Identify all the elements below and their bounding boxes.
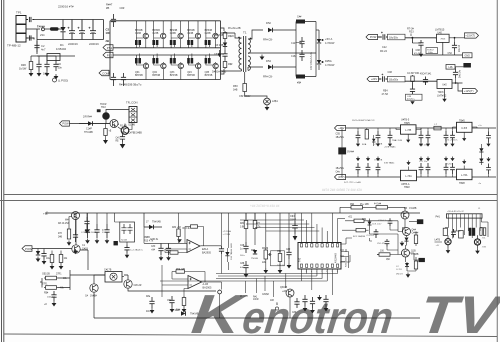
fuse F1 [37, 25, 45, 37]
wire bank bottom rail [346, 176, 497, 178]
capacitor bank boxed [114, 213, 135, 245]
capacitor C11 rail [106, 3, 125, 28]
node out box S [410, 253, 425, 262]
label +5V A [322, 37, 335, 45]
svg-text:GND #s: GND #s [150, 239, 159, 241]
transistor Q108 [402, 245, 419, 262]
svg-text:7: 7 [321, 271, 322, 273]
label LD bottom [435, 240, 443, 247]
transistor Q3B (bottom row cell) [170, 54, 184, 80]
resistor R52 top [296, 16, 316, 31]
svg-text:5#B TBAC: 5#B TBAC [384, 162, 395, 165]
capacitor C20 below box [124, 242, 143, 258]
diode D130 [362, 219, 382, 231]
capacitor CB7 top row [450, 128, 455, 147]
svg-text:TN#14B: TN#14B [190, 314, 199, 316]
svg-text:C#9 16#1 16#B: C#9 16#1 16#B [81, 232, 97, 234]
svg-text:BPP4B: BPP4B [205, 74, 213, 77]
label snubber bottom [212, 71, 227, 74]
svg-text:C1#: C1# [291, 42, 296, 45]
ground regA [419, 52, 423, 57]
diode D107 [144, 213, 162, 229]
svg-text:440u: 440u [240, 267, 246, 269]
diode D108 [176, 310, 199, 316]
svg-text:C#17B: C#17B [104, 269, 112, 272]
transistor Q4A (top row cell) [187, 21, 201, 48]
capacitor C81 [412, 40, 423, 55]
svg-text:C23B: C23B [152, 32, 158, 35]
wire inverter bottom rail [110, 21, 221, 80]
diode D52 [263, 21, 296, 42]
svg-text:D#1 0.1#: D#1 0.1# [373, 224, 383, 226]
capacitor C1b [26, 35, 34, 40]
led LED1 [245, 93, 279, 105]
svg-text:+7u/1#s: +7u/1#s [445, 164, 454, 166]
diode D30 snubber [215, 40, 227, 50]
label extra [44, 303, 47, 306]
svg-text:4B19##B: 4B19##B [335, 253, 338, 263]
svg-text:C+# 2Bu/1#s: C+# 2Bu/1#s [130, 250, 144, 252]
capacitor C60 series B [379, 71, 393, 82]
node out box D [409, 219, 423, 224]
svg-text:SV4##: SV4## [347, 152, 355, 154]
capacitor C9 [43, 60, 50, 76]
wire page divider upper [4, 194, 497, 196]
resistor R30 snubber [214, 31, 234, 40]
wire bottom rail input [26, 20, 104, 55]
resistor R134 [407, 257, 418, 271]
capacitor C104 [44, 291, 57, 307]
svg-text:C#5 1#u: C#5 1#u [419, 145, 428, 147]
capacitor C6 [89, 20, 100, 47]
ground Q107 [400, 241, 405, 246]
svg-text:R#1 10k$1B: R#1 10k$1B [353, 236, 366, 238]
label B node [275, 302, 278, 310]
regulator U62 LM7812 [437, 80, 463, 98]
svg-text:Q#1#B: Q#1#B [280, 287, 288, 289]
svg-text:+15V(T): +15V(T) [465, 34, 475, 38]
label TDK box [426, 48, 438, 54]
svg-text:##B: ##B [482, 247, 486, 249]
svg-text:C## 1B#u/1#+#s: C## 1B#u/1#+#s [310, 51, 313, 70]
resistor R114 [182, 296, 187, 313]
capacitor C52 [448, 37, 461, 55]
svg-text:C23B: C23B [187, 32, 193, 35]
connector P101 [436, 214, 483, 219]
node +24V input B [367, 76, 379, 81]
capacitor C71 [116, 134, 126, 142]
regulator U47B-A [401, 161, 417, 190]
svg-text:100R: 100R [253, 299, 259, 301]
label R13 [144, 237, 154, 243]
resistor R120 [240, 213, 248, 230]
capacitor CB11 bottom row [356, 157, 361, 178]
svg-text:BA2905: BA2905 [202, 252, 212, 255]
svg-text:COM: COM [102, 71, 109, 75]
svg-text:+B: +B [43, 212, 47, 216]
label inverter bottom [119, 83, 142, 87]
svg-text:100u/1#: 100u/1# [47, 297, 56, 299]
relay RL1 [37, 54, 75, 61]
svg-text:C23B: C23B [205, 32, 211, 35]
wire snubber connections [217, 28, 224, 74]
resistor R101 [58, 217, 78, 255]
svg-text:C2# 0.1+: C2# 0.1+ [378, 220, 388, 222]
node +12V output [456, 83, 478, 94]
svg-text:FR# CB-: FR# CB- [263, 39, 273, 42]
resistor R53 bottom [296, 67, 316, 85]
svg-text:TR_CON: TR_CON [126, 101, 138, 105]
ground regB b [410, 100, 414, 105]
svg-text:TV: TV [417, 286, 500, 342]
capacitor CB2 top row [376, 128, 381, 147]
svg-text:C#: C# [58, 62, 62, 66]
label 18u/50s boxed [388, 34, 406, 40]
svg-text:C'1##B: C'1##B [409, 208, 417, 210]
svg-text:C$1: C$1 [167, 300, 172, 302]
node test point [218, 290, 222, 319]
label D#5A [322, 59, 335, 67]
wire bottom-half top rail [48, 212, 420, 214]
ic U101 [298, 239, 341, 273]
diode D132 [405, 238, 409, 245]
svg-text:R##: R## [176, 310, 181, 312]
capacitor C10 [53, 60, 62, 71]
capacitor C12 rail [84, 213, 89, 234]
wire opamp2 [184, 282, 222, 296]
inductor FB1 bead [50, 27, 59, 30]
svg-text:2: 2 [306, 271, 307, 273]
resistor R50 [233, 72, 247, 93]
regulator U48 [457, 160, 473, 186]
wire sense verticals [222, 213, 229, 274]
svg-text:+5#B TBAC: +5#B TBAC [384, 146, 396, 149]
svg-text:##7# 2## 4#9#8 7# 4##: ##7# 2## 4#9#8 7# 4## #2# [322, 188, 362, 192]
svg-text:+RF/12B: +RF/12B [214, 34, 224, 37]
connector TP1 [16, 11, 26, 43]
node COM connector [99, 70, 110, 76]
wire from left edge to Q102 [32, 213, 89, 270]
label L POD [53, 78, 69, 83]
wire bus drops [246, 274, 286, 298]
ground conn a [446, 248, 451, 253]
label R1#B vertical [231, 243, 233, 260]
svg-text:BPP4B: BPP4B [152, 74, 160, 77]
svg-text:D52: D52 [266, 21, 271, 25]
svg-text:R# 4F-25#: R# 4F-25# [58, 223, 70, 225]
svg-text:2200/16: 2200/16 [89, 42, 99, 46]
capacitor C120 [240, 242, 249, 257]
svg-text:POW: POW [25, 247, 32, 251]
svg-text:C23B: C23B [170, 32, 176, 35]
capacitor CB3 top row [388, 128, 393, 147]
svg-text:C52: C52 [448, 52, 453, 55]
capacitor C130 below IC [302, 295, 307, 312]
svg-text:C##: C## [388, 71, 393, 74]
capacitor C13 rail bottom [111, 73, 116, 86]
capacitor C112 [167, 296, 180, 313]
svg-text:FR-24: FR-24 [380, 50, 388, 53]
wire drive bus 1 [113, 47, 221, 49]
resistor RB2 [362, 128, 369, 146]
label connector pins top [447, 208, 481, 213]
svg-text:4n7: 4n7 [41, 48, 46, 52]
wire IC top pins [302, 213, 346, 239]
svg-text:+5V+4-R#+2#+#C: +5V+4-R#+2#+#C [447, 211, 464, 213]
svg-text:44 1##: 44 1## [374, 204, 382, 206]
capacitor C8 [36, 60, 41, 71]
svg-text:C####: C#### [412, 233, 419, 235]
node POW bottom input [22, 246, 32, 252]
svg-text:Pri+#m+#B: Pri+#m+#B [228, 27, 241, 30]
op-amp U1B [188, 276, 212, 290]
label C5x [239, 95, 251, 98]
wire bank top rail [346, 127, 497, 129]
capacitor C14 rail bottom [121, 73, 126, 86]
node junction A [411, 37, 413, 39]
svg-text:C2: C2 [41, 44, 45, 48]
transistor Q3A (top row cell) [170, 21, 184, 48]
capacitor CB5 top row [426, 128, 431, 147]
capacitor C132 below IC [323, 295, 328, 312]
transistor Q104 [124, 280, 142, 288]
svg-text:1Bu/50s: 1Bu/50s [389, 78, 399, 81]
svg-text:B: B [276, 302, 278, 306]
svg-text:R13 4k: R13 4k [183, 228, 191, 230]
wire rectifier frame [296, 22, 316, 77]
svg-text:D#5A: D#5A [325, 59, 332, 63]
node +15V output [465, 33, 479, 38]
svg-text:(15V): (15V) [338, 175, 344, 179]
resistor R122 [277, 245, 285, 274]
regulator U47B-5 [396, 119, 421, 143]
transistor TR2 [97, 103, 110, 119]
svg-text:+## 2#7##+# #4# ##: +## 2#7##+# #4# ## [250, 204, 280, 208]
wire IC right pins [341, 252, 349, 269]
svg-text:R$2#: R$2# [228, 35, 234, 38]
svg-text:(L POD): (L POD) [58, 79, 68, 83]
wire driver links [340, 226, 398, 262]
capacitor C103 [41, 249, 46, 265]
svg-text:R$#: R$# [44, 293, 49, 295]
svg-text:L#$1: L#$1 [272, 99, 278, 103]
node PS2 bus connector [103, 52, 113, 58]
wire drive bus 2 [113, 54, 221, 56]
resistor R106 [42, 284, 65, 290]
svg-text:T#2: T#2 [299, 257, 302, 262]
svg-text:TP-MB-12: TP-MB-12 [7, 44, 21, 48]
resistor R131 [345, 217, 398, 232]
potentiometer MA1 [262, 245, 272, 274]
diode D55 zener [316, 30, 321, 53]
svg-text:L4$: L4$ [449, 66, 454, 69]
wire connector drops [445, 218, 488, 238]
resistor R135 [414, 232, 417, 247]
svg-text:47u/5#+: 47u/5#+ [407, 99, 416, 101]
ground regB a [442, 97, 446, 102]
svg-text:C##-2R: C##-2R [134, 285, 142, 287]
svg-text:BPP4B: BPP4B [187, 74, 195, 77]
svg-text:##.2##: ##.2## [396, 269, 403, 271]
svg-text:27R 1#: 27R 1# [277, 265, 285, 267]
transformer T1 [228, 27, 251, 72]
capacitor C rail 87.5 [85, 213, 90, 244]
svg-text:R#a: R#a [146, 296, 151, 298]
node L4 box [446, 65, 455, 70]
capacitor C130b [378, 218, 392, 226]
svg-text:+.7#1/B: +.7#1/B [223, 234, 231, 236]
svg-text:+24V: +24V [371, 77, 378, 81]
svg-text:C#1 TB$## 1#1R: C#1 TB$## 1#1R [231, 243, 233, 260]
wire Q106 Q107 link [403, 224, 407, 246]
svg-text:2200/16: 2200/16 [68, 42, 78, 46]
transistor Q105 [280, 287, 294, 318]
node PS1 bus connector [103, 45, 113, 51]
svg-text:T1: T1 [243, 31, 247, 35]
svg-text:TB#2: TB#2 [404, 186, 410, 189]
diode D70 [79, 121, 110, 134]
transistor Q5B (bottom row cell) [205, 54, 219, 80]
svg-text:27R1: 27R1 [56, 274, 62, 276]
transistor Q4B (bottom row cell) [187, 54, 201, 80]
wire mid rail input [26, 28, 63, 30]
ground input a [29, 71, 34, 77]
resistor R121 [253, 213, 261, 230]
capacitor C70 [104, 124, 112, 139]
op-amp U1A [187, 240, 212, 255]
label bus drop names [240, 291, 287, 302]
node POW input A [366, 34, 378, 39]
svg-text:TN#14B: TN#14B [152, 221, 161, 224]
svg-text:D#2: D#2 [362, 219, 367, 221]
svg-text:LM7#12: LM7#12 [437, 93, 447, 97]
svg-text:BPP4B: BPP4B [170, 74, 178, 77]
transistor Q2B (bottom row cell) [152, 54, 166, 80]
svg-text:1N5402: 1N5402 [56, 47, 67, 51]
node +15V flag top B [463, 63, 471, 68]
label C bank in bottom [336, 168, 345, 173]
svg-text:R23: R23 [409, 31, 414, 34]
diode D101 [36, 249, 41, 263]
regulator U45 [453, 120, 478, 142]
wire opto links [94, 275, 216, 318]
svg-text:4: 4 [311, 271, 312, 273]
wire regA ground rail [412, 48, 462, 55]
label bank mid top [374, 139, 403, 149]
svg-text:G$1/3B: G$1/3B [42, 274, 50, 276]
label vertical C10x [310, 51, 313, 70]
svg-text:D#7 #T2# +#u4B: D#7 #T2# +#u4B [344, 182, 361, 184]
capacitor C122 [286, 245, 292, 269]
diode D131 [396, 262, 409, 271]
capacitor C101 [291, 37, 305, 48]
ground input d [54, 74, 59, 80]
capacitor C48 [410, 87, 415, 95]
diode DB0 [372, 135, 376, 146]
label bank outputs [344, 119, 482, 185]
resistor R70 [83, 116, 92, 119]
svg-text:C22: C22 [382, 46, 387, 49]
svg-text:+7u/5#B: +7u/5#B [374, 144, 383, 146]
wire TR2 to TR_CON [106, 110, 129, 124]
svg-text:C##: C## [286, 249, 291, 251]
svg-text:+15V: +15V [338, 126, 344, 130]
svg-text:#B: #B [106, 6, 109, 10]
svg-text:D# R3B: D# R3B [215, 44, 224, 47]
capacitor C121 [240, 261, 249, 278]
capacitor CB right top [486, 128, 491, 147]
svg-text:C#a: C#a [336, 171, 341, 173]
ground TRcon b [120, 142, 126, 149]
led LED3 [474, 235, 486, 249]
svg-text:C23B: C23B [135, 32, 141, 35]
capacitor C2 [34, 41, 46, 52]
capacitor C113 [146, 296, 155, 314]
svg-text:TP1: TP1 [16, 11, 22, 15]
resistor R112 [170, 249, 187, 254]
label bank mid bottom [374, 160, 395, 165]
capacitor C132 [377, 239, 389, 247]
svg-text:C'1##B: C'1##B [411, 254, 419, 256]
regulator U42 LM7815 [435, 27, 465, 55]
svg-text:#1 4.7#: #1 4.7# [240, 296, 248, 298]
transistor Q1A (top row cell) [135, 21, 149, 48]
transistor Q70 [110, 120, 127, 128]
svg-text:C##: C## [297, 16, 302, 19]
watermark KenotronTV [189, 283, 500, 342]
svg-text:1#B: 1#B [233, 88, 238, 91]
capacitor C45 [453, 67, 464, 84]
svg-text:TR2: TR2 [101, 106, 106, 109]
svg-text:P#1: P#1 [436, 216, 441, 219]
resistor R140 [443, 228, 447, 235]
resistor R113 [162, 265, 222, 297]
svg-text:+E1: +E1 [348, 217, 353, 219]
label R64 [382, 90, 389, 97]
diode D120 [251, 250, 258, 260]
svg-text:C5$: C5$ [336, 134, 341, 136]
node +15V input bank [335, 125, 346, 130]
svg-text:5: 5 [332, 271, 333, 273]
transistor Q107 [398, 228, 419, 238]
svg-text:C#7B$ 2#BB: C#7B$ 2#BB [129, 133, 143, 135]
svg-text:234: 234 [40, 33, 45, 37]
svg-text:POW: POW [370, 35, 377, 39]
node frame around R122 [271, 251, 285, 266]
resistor R31 snubber [223, 60, 233, 69]
resistor R142 dark pair [469, 228, 475, 236]
capacitor C123 [290, 213, 298, 241]
wire bottom page border [4, 334, 497, 337]
svg-text:C$#: C$# [277, 251, 282, 253]
ground conn b [475, 249, 480, 254]
svg-text:1k/1W: 1k/1W [19, 67, 27, 71]
svg-text:+5V A: +5V A [325, 37, 332, 41]
capacitor CB15 bottom row [426, 157, 431, 178]
svg-text:1Bu/5#s: 1Bu/5#s [336, 168, 345, 170]
transistor Q102 [72, 244, 89, 253]
resistor R143 pair [480, 228, 486, 236]
node POW input TRcon [60, 121, 89, 126]
wire IC left bus [240, 213, 319, 245]
ground LED [265, 105, 270, 111]
svg-text:10n: 10n [58, 66, 63, 70]
label IC pin numbers [301, 271, 338, 273]
svg-text:18u/50s: 18u/50s [389, 36, 399, 39]
svg-text:C#1: C#1 [116, 138, 121, 140]
capacitor C110 [150, 239, 164, 261]
diode DB1 zener [479, 144, 483, 156]
